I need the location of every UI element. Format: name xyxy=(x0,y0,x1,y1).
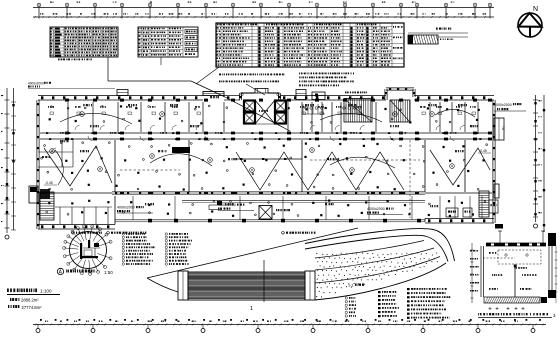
svg-text:4000x2000: 4000x2000 xyxy=(117,206,135,210)
stair tower 2 xyxy=(385,88,416,101)
detail legend list xyxy=(122,233,192,265)
left wing stair xyxy=(40,189,54,220)
canopy hatched block xyxy=(188,272,305,300)
svg-text:4000x2000: 4000x2000 xyxy=(367,207,385,211)
AL distribution boxes xyxy=(446,200,498,217)
left wing west bump xyxy=(29,186,38,203)
detail room bottom ticks xyxy=(489,307,525,310)
right 4000x2000 label xyxy=(494,103,526,111)
section 1-1 label xyxy=(348,284,364,288)
dashed circuit lines xyxy=(120,140,420,218)
building outer wall: left xyxy=(37,100,40,229)
table T3 equipment schedule xyxy=(216,23,404,67)
bottom legend columns xyxy=(345,288,450,319)
right wing stair xyxy=(479,191,489,217)
svg-text:1:50: 1:50 xyxy=(104,270,113,275)
wall-type legend box xyxy=(408,28,468,45)
plan title xyxy=(7,289,60,310)
svg-text:1-1: 1-1 xyxy=(348,284,354,288)
legend row under plan xyxy=(72,232,316,235)
detail room title xyxy=(478,313,556,318)
level labels -0.45 xyxy=(44,149,491,185)
small roof box near tower2 xyxy=(296,90,306,100)
ceiling lamp symbols xyxy=(41,105,488,217)
detail label A 1:50 xyxy=(57,268,113,275)
south passage wall xyxy=(182,201,425,210)
toilet stalls xyxy=(303,104,363,114)
left dimension lines xyxy=(1,88,16,239)
right wall bump 2 xyxy=(494,184,499,198)
svg-text:1: 1 xyxy=(250,306,253,312)
detail circle A xyxy=(63,225,113,276)
svg-text:2886.2m²: 2886.2m² xyxy=(21,298,39,303)
elevator core xyxy=(244,100,286,124)
svg-text:3: 3 xyxy=(553,313,556,318)
svg-text:70: 70 xyxy=(501,126,505,130)
right dimension lines xyxy=(533,95,545,232)
detail room top ticks xyxy=(498,231,545,243)
detail room left wall xyxy=(470,243,484,303)
stair 2 treads near tower2 xyxy=(390,100,410,122)
ceiling fan circles xyxy=(50,112,455,173)
interior walls above corridor xyxy=(68,102,478,132)
canopy nib tip xyxy=(147,278,178,292)
corridor walls xyxy=(40,132,492,140)
svg-text:4000x2000: 4000x2000 xyxy=(218,203,236,207)
wiring zigzag left wing xyxy=(44,146,112,186)
X-box reserved opening xyxy=(259,206,290,220)
bottom dimension line xyxy=(33,319,546,333)
canopy left cap xyxy=(178,271,188,300)
entrance canopy bump left xyxy=(203,92,224,96)
structural columns xyxy=(65,99,492,195)
detail room top wall xyxy=(486,233,556,246)
left wing sub rooms below corridor xyxy=(38,140,73,167)
building outer wall: top xyxy=(38,96,494,101)
leader from T3 xyxy=(196,67,265,95)
canopy bump x117 xyxy=(117,90,128,96)
detail room right wall xyxy=(548,246,558,303)
bottom band partitions xyxy=(55,196,482,224)
section leader diagonal xyxy=(147,228,358,278)
swoosh curves xyxy=(305,229,455,300)
detail room bottom wall hatched xyxy=(484,297,547,303)
note under T1 + T2 leader xyxy=(58,57,161,65)
entrance tower center xyxy=(239,89,281,101)
svg-text:4000x2000: 4000x2000 xyxy=(494,103,512,107)
top-left 4000x2000 label xyxy=(28,82,115,89)
section marker 1 xyxy=(250,260,264,312)
wiring zigzag right wing xyxy=(430,148,490,185)
svg-text:-0.45: -0.45 xyxy=(45,181,53,185)
building outer wall: right xyxy=(493,100,496,223)
svg-text:4000x2000: 4000x2000 xyxy=(28,82,44,86)
stairwell treads mid xyxy=(344,99,372,123)
table T2 legend upper-middle xyxy=(138,27,198,57)
notes under equipment table xyxy=(219,73,367,94)
table T1 legend upper-left xyxy=(50,27,118,57)
corridor tiny labels xyxy=(60,132,456,134)
north arrow xyxy=(518,6,542,37)
svg-text:27774.8m²: 27774.8m² xyxy=(22,305,43,310)
reserve labels in plan xyxy=(117,203,403,215)
svg-text:N: N xyxy=(533,6,538,13)
dark cabinet bar mid xyxy=(172,147,190,153)
building outer wall: bottom xyxy=(38,196,494,229)
swoosh stipple xyxy=(316,252,438,297)
black blob outside right bottom xyxy=(495,224,503,229)
interior walls below corridor xyxy=(40,140,492,194)
extra room fixtures above corridor xyxy=(48,106,476,115)
wiring zigzag main hall xyxy=(236,152,404,190)
right wall bump with 70 label xyxy=(494,118,505,140)
door swing arcs xyxy=(75,126,465,141)
svg-text:1:100: 1:100 xyxy=(40,289,52,294)
canopy bump x312 xyxy=(312,92,325,100)
top grid dimension line xyxy=(33,2,494,19)
svg-text:-0.45: -0.45 xyxy=(479,149,487,153)
detail room interior xyxy=(483,250,541,297)
canopy right cap xyxy=(305,271,315,300)
leader line from table T1 xyxy=(108,57,290,131)
room labels (tiny) xyxy=(60,96,478,207)
wiring arcs xyxy=(55,109,475,185)
